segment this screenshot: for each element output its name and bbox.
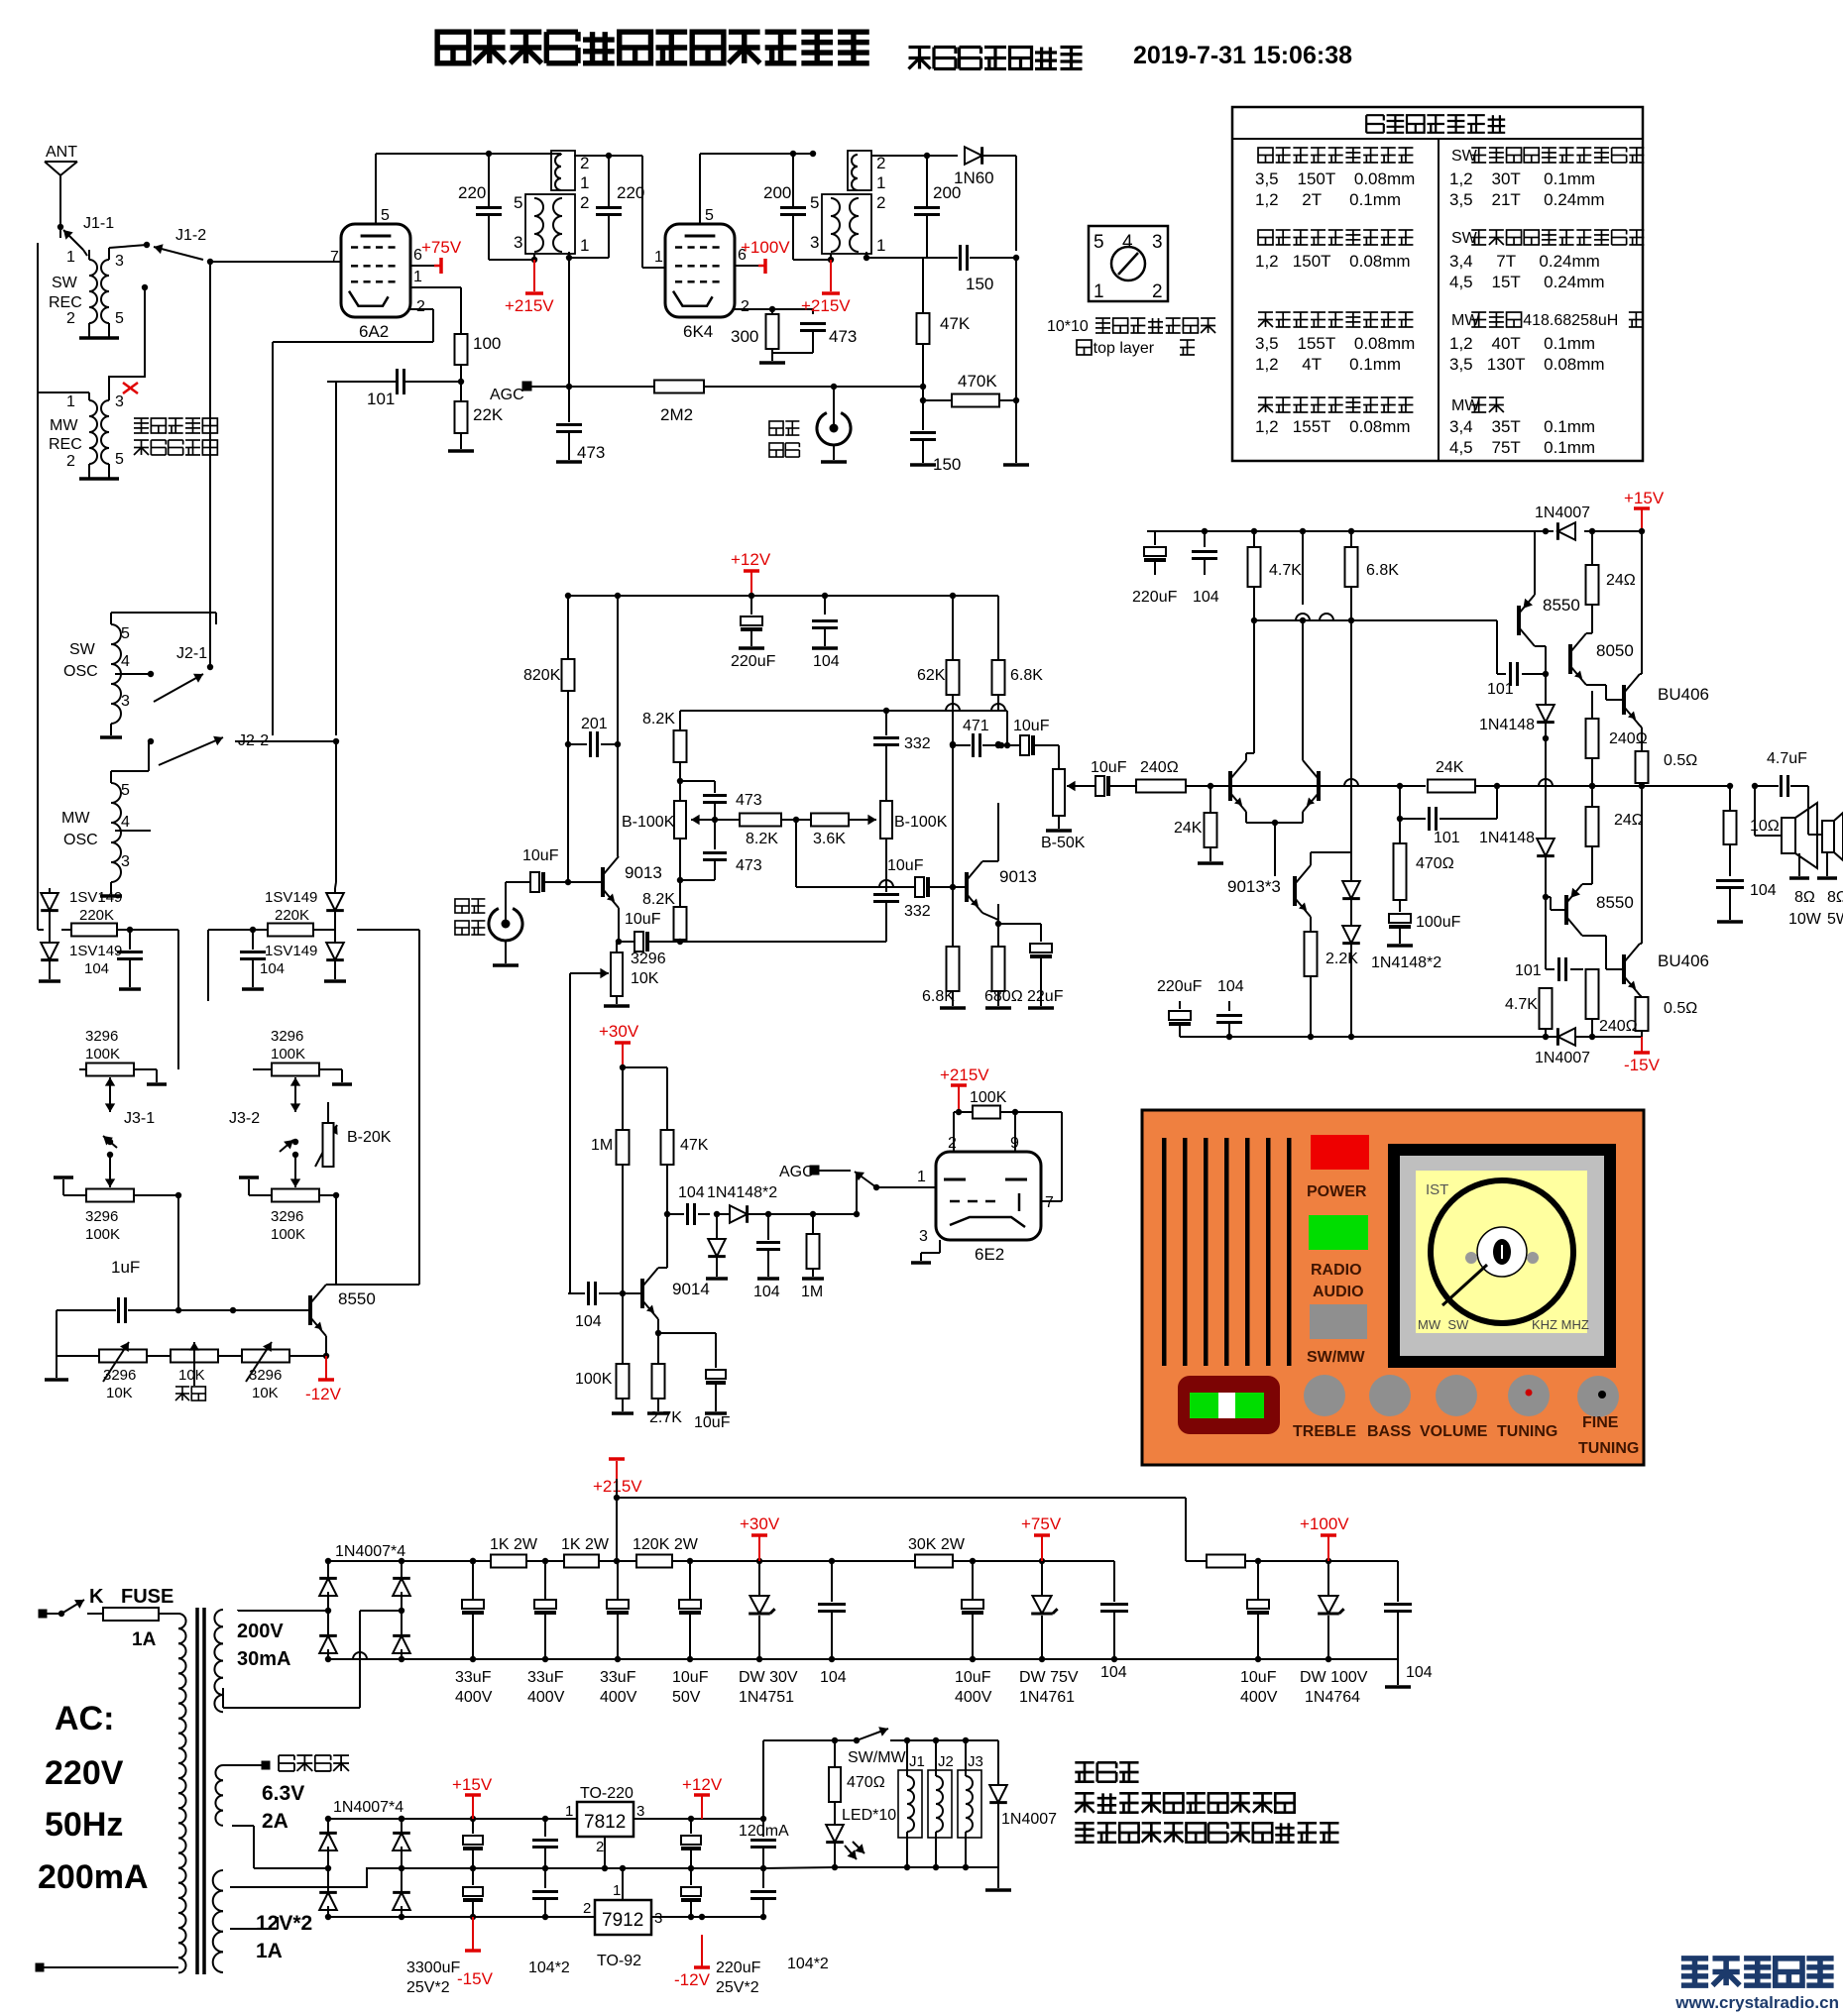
svg-text:-15V: -15V xyxy=(1624,1056,1661,1074)
diff pair 9013x3 xyxy=(1227,760,1319,896)
regulator 7812 xyxy=(565,1785,644,1855)
svg-text:240Ω: 240Ω xyxy=(1599,1018,1638,1035)
svg-text:220: 220 xyxy=(617,183,644,202)
svg-text:2: 2 xyxy=(583,1900,591,1917)
svg-text:www.crystalradio.cn: www.crystalradio.cn xyxy=(1674,1993,1839,2012)
tube 6A2 xyxy=(341,224,410,341)
svg-text:104: 104 xyxy=(753,1284,780,1300)
wire 8550 coll xyxy=(323,1336,329,1359)
svg-text:TREBLE: TREBLE xyxy=(1293,1423,1356,1440)
fuse FUSE 1A xyxy=(99,1586,176,1650)
+30V supply xyxy=(599,1022,639,1067)
wire T2 sec bottom xyxy=(864,252,958,261)
svg-text:3: 3 xyxy=(514,233,522,252)
wire l var to pot xyxy=(178,930,210,1069)
tube 6K4 xyxy=(665,224,735,341)
wire 1N60 out xyxy=(982,156,1016,251)
dial IST label xyxy=(1426,1181,1448,1198)
bridge 1N4007x4 lv xyxy=(319,1799,410,1920)
svg-text:B-100K: B-100K xyxy=(894,814,948,831)
svg-text:150: 150 xyxy=(966,275,993,293)
capacitor 332 lower xyxy=(873,839,931,942)
svg-text:400V: 400V xyxy=(955,1689,992,1706)
svg-text:TUNING: TUNING xyxy=(1497,1423,1557,1440)
svg-text:3300uF: 3300uF xyxy=(406,1960,460,1976)
svg-text:101: 101 xyxy=(1487,681,1514,698)
dial frame xyxy=(1388,1144,1616,1368)
long bus B xyxy=(272,342,274,735)
svg-text:471: 471 xyxy=(963,718,989,734)
capacitor 150 b xyxy=(910,400,961,474)
8550 top collector xyxy=(1535,646,1549,677)
long bus A xyxy=(209,262,211,667)
wire sw osc bottom to varactor xyxy=(38,922,50,930)
svg-text:25V*2: 25V*2 xyxy=(716,1979,759,1996)
resistor 8.2K mid xyxy=(691,814,781,848)
svg-text:4,5 15T 0.24mm: 4,5 15T 0.24mm xyxy=(1449,273,1605,291)
svg-text:7: 7 xyxy=(1045,1194,1054,1211)
7912 pin1 wire xyxy=(622,1868,624,1900)
+15V supply lv xyxy=(452,1775,493,1819)
wire cap to +215V node xyxy=(489,257,537,263)
transistor 8550 osc xyxy=(310,1285,376,1336)
svg-text:1N4148: 1N4148 xyxy=(1479,717,1535,733)
pot B-50K xyxy=(1041,745,1086,851)
date text xyxy=(1133,42,1352,69)
svg-text:1N4007: 1N4007 xyxy=(1535,1050,1590,1066)
svg-text:1N4761: 1N4761 xyxy=(1019,1689,1075,1706)
+75V supply psu xyxy=(1021,1514,1062,1561)
svg-text:5: 5 xyxy=(381,207,390,224)
9013b collector xyxy=(982,803,998,861)
+100V supply psu xyxy=(1300,1514,1349,1561)
svg-text:+12V: +12V xyxy=(682,1775,723,1794)
svg-text:33uF: 33uF xyxy=(527,1669,564,1686)
preamp +12V rail xyxy=(565,593,998,599)
svg-text:8050: 8050 xyxy=(1596,641,1634,660)
svg-text:7912: 7912 xyxy=(602,1910,643,1931)
svg-text:100uF: 100uF xyxy=(1416,914,1461,931)
6A2 pin2 wire xyxy=(273,309,433,342)
svg-text:300: 300 xyxy=(731,327,758,346)
svg-text:104: 104 xyxy=(813,653,840,670)
6E2 internals xyxy=(944,1179,1027,1227)
switch J1-2 xyxy=(144,227,213,265)
-12V supply osc xyxy=(305,1356,342,1403)
capacitor 473 tone lower xyxy=(677,820,762,907)
secondary 200V 30mA xyxy=(214,1610,328,1712)
svg-text:3296: 3296 xyxy=(249,1367,282,1384)
speaker 8ohm 5W xyxy=(1808,786,1843,928)
svg-text:8Ω: 8Ω xyxy=(1794,889,1815,906)
svg-text:4.7uF: 4.7uF xyxy=(1767,750,1807,767)
switch J2-2 xyxy=(148,732,339,765)
svg-text:1M: 1M xyxy=(801,1284,823,1300)
svg-text:AC:: AC: xyxy=(55,1700,114,1737)
svg-text:47K: 47K xyxy=(680,1137,709,1154)
svg-text:5W: 5W xyxy=(1827,911,1843,928)
resistor 2.7K 9014 xyxy=(647,1364,682,1426)
svg-text:TUNING: TUNING xyxy=(1578,1440,1639,1457)
svg-text:1N4007*4: 1N4007*4 xyxy=(333,1799,403,1816)
coil J3 xyxy=(958,1740,983,1867)
wire T1 sec bottom xyxy=(566,255,609,261)
svg-text:3296: 3296 xyxy=(271,1028,303,1045)
speaker 8ohm 10W xyxy=(1755,786,1822,928)
wire 470K left xyxy=(923,399,952,401)
ANT label xyxy=(46,144,77,161)
svg-text:5: 5 xyxy=(810,193,819,212)
led gnd xyxy=(985,1867,1011,1890)
svg-text:8550: 8550 xyxy=(338,1289,376,1308)
+215V branch wire xyxy=(617,1498,1186,1561)
zener DW 75V xyxy=(1019,1561,1079,1706)
svg-text:AGC: AGC xyxy=(490,387,524,403)
svg-text:1N4148*2: 1N4148*2 xyxy=(1371,954,1441,971)
amp bottom rail xyxy=(1180,1034,1642,1040)
BU406 top emitter xyxy=(1640,726,1642,741)
input capacitor 10uF xyxy=(506,847,603,892)
capacitor 104 rail xyxy=(812,596,840,670)
wire bus down left xyxy=(37,392,39,922)
wire det gnd xyxy=(1003,400,1029,465)
diode 1N60 xyxy=(954,147,994,187)
6E2 pins xyxy=(919,1135,1054,1245)
pot B-100K right xyxy=(880,801,948,839)
svg-text:104: 104 xyxy=(678,1184,705,1201)
8550 top emitter xyxy=(1535,531,1546,595)
svg-text:IST: IST xyxy=(1426,1181,1448,1198)
led rail top xyxy=(904,1737,998,1743)
dial inner gray xyxy=(1400,1156,1604,1356)
watermark url xyxy=(1674,1993,1839,2012)
wire right var bus xyxy=(335,741,336,888)
svg-text:1K 2W: 1K 2W xyxy=(490,1536,538,1553)
resistor 6.8K amp xyxy=(1345,531,1400,623)
wire diode branch xyxy=(667,1213,684,1215)
wire 623 branch xyxy=(617,596,619,852)
svg-text:1,2 40T 0.1mm: 1,2 40T 0.1mm xyxy=(1449,334,1595,353)
svg-text:1N4764: 1N4764 xyxy=(1305,1689,1360,1706)
svg-text:1,2 30T 0.1mm: 1,2 30T 0.1mm xyxy=(1449,169,1595,188)
6E2 pin2 wire xyxy=(954,1112,959,1152)
transformer primary xyxy=(36,1614,186,1972)
resistor 24K amp xyxy=(1174,786,1223,863)
switch J1-1 xyxy=(58,215,114,250)
svg-text:50Hz: 50Hz xyxy=(45,1806,123,1844)
BU406 low emitter xyxy=(1640,995,1642,997)
diff collector left xyxy=(1246,620,1254,760)
6A2 pin1 wire xyxy=(410,287,461,334)
resistor 24K mid xyxy=(1428,759,1475,793)
svg-text:220K: 220K xyxy=(79,907,114,924)
svg-text:1SV149: 1SV149 xyxy=(69,943,122,959)
svg-text:100K: 100K xyxy=(271,1046,305,1063)
svg-text:6A2: 6A2 xyxy=(359,322,389,341)
svg-text:12V*2: 12V*2 xyxy=(256,1912,312,1935)
svg-text:1: 1 xyxy=(654,249,663,266)
dial yellow xyxy=(1416,1171,1587,1333)
svg-text:200mA: 200mA xyxy=(38,1858,149,1896)
svg-text:+30V: +30V xyxy=(599,1022,639,1041)
svg-text:B-20K: B-20K xyxy=(347,1129,392,1146)
diff collector right xyxy=(1300,605,1306,760)
RADIO AUDIO labels xyxy=(1311,1262,1364,1300)
svg-text:100K: 100K xyxy=(575,1371,613,1388)
capacitor 220uF amp xyxy=(1132,531,1178,606)
capacitor 104 hv c xyxy=(1384,1561,1433,1681)
svg-text:10uF: 10uF xyxy=(625,911,661,928)
wire T2 +215V node xyxy=(813,254,834,263)
front panel body xyxy=(1142,1110,1644,1465)
9013b emitter wire xyxy=(982,913,998,924)
wire audio out node xyxy=(834,387,923,408)
svg-text:220uF: 220uF xyxy=(716,1960,761,1976)
svg-text:100: 100 xyxy=(473,334,501,353)
wire to agc switch xyxy=(813,1174,860,1217)
capacitor 104 b xyxy=(678,1184,720,1225)
svg-text:3,5 21T 0.24mm: 3,5 21T 0.24mm xyxy=(1449,190,1605,209)
capacitor 332 upper xyxy=(873,711,931,801)
capacitor 101 xyxy=(327,369,461,408)
trimmer 3296 100K b xyxy=(253,1001,352,1097)
svg-text:3: 3 xyxy=(919,1228,928,1245)
svg-text:1M: 1M xyxy=(591,1137,613,1154)
diode 1N4007 bottom xyxy=(1535,1028,1590,1066)
svg-text:8.2K: 8.2K xyxy=(642,891,675,908)
6A2 plate wire xyxy=(375,154,377,224)
wire agc node cont xyxy=(834,384,926,400)
note 注意 xyxy=(1075,1762,1138,1781)
wire 12V to led xyxy=(763,1737,838,1819)
svg-text:1,2 150T 0.08mm: 1,2 150T 0.08mm xyxy=(1255,252,1411,271)
svg-text:104*2: 104*2 xyxy=(787,1956,829,1972)
svg-text:7: 7 xyxy=(330,249,339,266)
svg-text:400V: 400V xyxy=(527,1689,565,1706)
svg-text:22K: 22K xyxy=(473,405,504,424)
svg-text:KHZ MHZ: KHZ MHZ xyxy=(1532,1317,1589,1332)
svg-text:FINE: FINE xyxy=(1582,1414,1619,1431)
resistor 240 low xyxy=(1586,969,1638,1037)
lv mid rail xyxy=(402,1865,766,1871)
svg-text:SW/MW: SW/MW xyxy=(1307,1349,1366,1366)
resistor 100K 9014 xyxy=(575,1293,634,1413)
diff emitters xyxy=(1246,812,1303,876)
capacitor 473 tone upper xyxy=(680,781,762,823)
svg-text:104: 104 xyxy=(1217,978,1244,995)
svg-text:1SV149: 1SV149 xyxy=(265,943,317,959)
diode 1N4007 led xyxy=(989,1740,1057,1867)
bridge 1N4007x4 hv xyxy=(319,1543,410,1662)
table right column rows xyxy=(1449,148,1644,457)
resistor to 100V xyxy=(1207,1555,1245,1568)
secondary 6.3V xyxy=(215,1755,349,1833)
svg-text:101: 101 xyxy=(1434,830,1460,846)
svg-text:220uF: 220uF xyxy=(1132,589,1178,606)
resistor 47K det xyxy=(917,258,971,403)
svg-text:5: 5 xyxy=(121,782,130,799)
svg-text:2: 2 xyxy=(1152,281,1163,302)
svg-text:1: 1 xyxy=(66,249,75,266)
svg-text:1N4751: 1N4751 xyxy=(739,1689,794,1706)
svg-text:100K: 100K xyxy=(85,1226,120,1243)
svg-text:3,4 7T 0.24mm: 3,4 7T 0.24mm xyxy=(1449,252,1600,271)
svg-text:9014: 9014 xyxy=(672,1280,710,1298)
transistor 9013 third xyxy=(1275,865,1311,917)
resistor 470 led xyxy=(829,1740,885,1802)
svg-text:+75V: +75V xyxy=(1021,1514,1062,1533)
capacitor 10uF fb xyxy=(619,891,687,952)
wire from tone to 104 xyxy=(565,744,571,1293)
svg-text:5: 5 xyxy=(705,207,714,224)
svg-text:8.2K: 8.2K xyxy=(746,831,778,847)
capacitor 220 right xyxy=(596,153,644,258)
transistor BU406 low xyxy=(1583,936,1709,995)
svg-text:2.2K: 2.2K xyxy=(1325,951,1358,967)
switch J2-1 xyxy=(115,645,213,702)
LED string xyxy=(826,1802,896,1867)
capacitor 4.7uF xyxy=(1755,750,1808,797)
svg-text:24Ω: 24Ω xyxy=(1614,812,1644,829)
capacitor 101 mid xyxy=(1397,783,1500,846)
capacitor 100uF xyxy=(1387,900,1461,946)
svg-text:-15V: -15V xyxy=(457,1969,494,1988)
note 磁棒天线此点断开 xyxy=(134,418,217,455)
svg-text:24K: 24K xyxy=(1174,820,1203,837)
resistor 0.5 top xyxy=(1636,741,1698,789)
diode 1N4148 d xyxy=(706,1214,728,1279)
coil SW OSC xyxy=(63,613,216,737)
svg-text:8550: 8550 xyxy=(1596,893,1634,912)
trimmer 3296 100K a xyxy=(79,1028,167,1097)
wire to 6K4 grid xyxy=(642,156,665,268)
resistor 100 xyxy=(455,334,502,365)
svg-text:DW 75V: DW 75V xyxy=(1019,1669,1079,1686)
+30V rail xyxy=(568,1004,667,1086)
svg-text:10uF: 10uF xyxy=(1091,759,1127,776)
tube 6E2 xyxy=(936,1152,1041,1264)
hv winding wires xyxy=(223,1610,402,1708)
resistor 22K xyxy=(455,401,504,433)
capacitor 1uF xyxy=(57,1258,178,1323)
tone network top wire xyxy=(680,704,1007,745)
svg-text:332: 332 xyxy=(904,903,931,920)
wire 300/473 join xyxy=(759,349,813,363)
resistor 1K 2W a xyxy=(490,1536,538,1568)
svg-text:10W: 10W xyxy=(1788,911,1822,928)
svg-text:VOLUME: VOLUME xyxy=(1420,1423,1488,1440)
svg-text:47K: 47K xyxy=(940,314,971,333)
resistor 24 low xyxy=(1586,786,1644,846)
svg-text:1: 1 xyxy=(413,269,422,285)
svg-text:104: 104 xyxy=(1100,1664,1127,1681)
svg-text:680Ω: 680Ω xyxy=(984,988,1023,1005)
long bus C xyxy=(327,382,336,735)
svg-text:104: 104 xyxy=(575,1313,602,1330)
resistor 240 top xyxy=(1546,691,1648,789)
resistor 10 speaker xyxy=(1724,786,1780,844)
switch SW/MW xyxy=(835,1727,907,1766)
resistor 120K 2W xyxy=(633,1536,699,1568)
svg-text:1: 1 xyxy=(917,1169,926,1185)
svg-text:AGC: AGC xyxy=(779,1164,814,1180)
svg-text:REC: REC xyxy=(49,436,82,453)
8050 wires xyxy=(1586,605,1592,691)
title 电子管超外差中短波接收机 xyxy=(437,32,869,63)
svg-text:473: 473 xyxy=(829,327,857,346)
svg-text:2A: 2A xyxy=(262,1810,288,1833)
svg-text:1: 1 xyxy=(876,173,885,192)
svg-text:BU406: BU406 xyxy=(1658,685,1709,704)
resistor 680 xyxy=(984,904,1023,1008)
wire pots to bus xyxy=(178,1192,339,1310)
svg-text:+100V: +100V xyxy=(741,238,790,257)
capacitor 104 hv b xyxy=(1063,1561,1128,1681)
svg-text:J1: J1 xyxy=(909,1753,925,1770)
dial circle xyxy=(1431,1180,1573,1323)
svg-text:3: 3 xyxy=(636,1803,644,1820)
trimmer 3296 10K input xyxy=(570,942,666,1006)
diode 1N4148 a xyxy=(1479,674,1555,741)
resistor 2M2 xyxy=(654,381,837,425)
T1 wires xyxy=(489,154,569,260)
POWER lamp xyxy=(1311,1135,1369,1170)
pot B-100K left xyxy=(622,781,686,839)
svg-text:10K: 10K xyxy=(252,1385,279,1401)
9013a collector wire xyxy=(617,852,619,856)
transformer core xyxy=(197,1608,204,1974)
svg-text:3.6K: 3.6K xyxy=(813,831,846,847)
svg-text:6E2: 6E2 xyxy=(975,1245,1004,1264)
svg-text:2: 2 xyxy=(416,298,425,315)
svg-text:820K: 820K xyxy=(523,667,561,684)
svg-text:1K 2W: 1K 2W xyxy=(561,1536,610,1553)
SWMW label xyxy=(1307,1349,1366,1366)
svg-text:3: 3 xyxy=(121,853,130,870)
svg-text:1: 1 xyxy=(613,1882,621,1899)
svg-text:FUSE: FUSE xyxy=(121,1586,173,1608)
svg-text:332: 332 xyxy=(904,735,931,752)
speaker grounds xyxy=(1789,852,1837,878)
svg-text:1A: 1A xyxy=(132,1629,157,1650)
svg-text:10uF: 10uF xyxy=(955,1669,991,1686)
wire mw sec up xyxy=(109,284,148,389)
zener DW 100V xyxy=(1300,1561,1368,1706)
svg-text:BU406: BU406 xyxy=(1658,952,1709,970)
svg-text:150: 150 xyxy=(933,455,961,474)
svg-text:TO-220: TO-220 xyxy=(580,1785,634,1802)
hv ground rail xyxy=(328,1656,1398,1662)
capacitor 104 amp low xyxy=(1216,978,1244,1037)
resistor 1K 2W b xyxy=(561,1536,610,1568)
svg-text:220K: 220K xyxy=(275,907,309,924)
svg-text:+215V: +215V xyxy=(505,296,554,315)
svg-text:AUDIO: AUDIO xyxy=(1313,1284,1364,1300)
capacitor 104 amp a xyxy=(1192,531,1219,606)
svg-text:6.8K: 6.8K xyxy=(1366,562,1399,579)
capacitor 10uF 9014 xyxy=(658,1333,731,1431)
svg-text:10K: 10K xyxy=(106,1385,133,1401)
svg-text:OSC: OSC xyxy=(63,663,98,680)
svg-text:MW: MW xyxy=(61,810,90,827)
diode 1N4007 top xyxy=(1535,504,1590,540)
svg-text:104: 104 xyxy=(84,960,109,977)
svg-text:10uF: 10uF xyxy=(522,847,559,864)
left bus wire xyxy=(38,227,89,392)
BU406 low coll xyxy=(1640,786,1642,944)
IF transformer T1 xyxy=(514,151,589,255)
diode 1N4148 b xyxy=(1479,738,1555,900)
